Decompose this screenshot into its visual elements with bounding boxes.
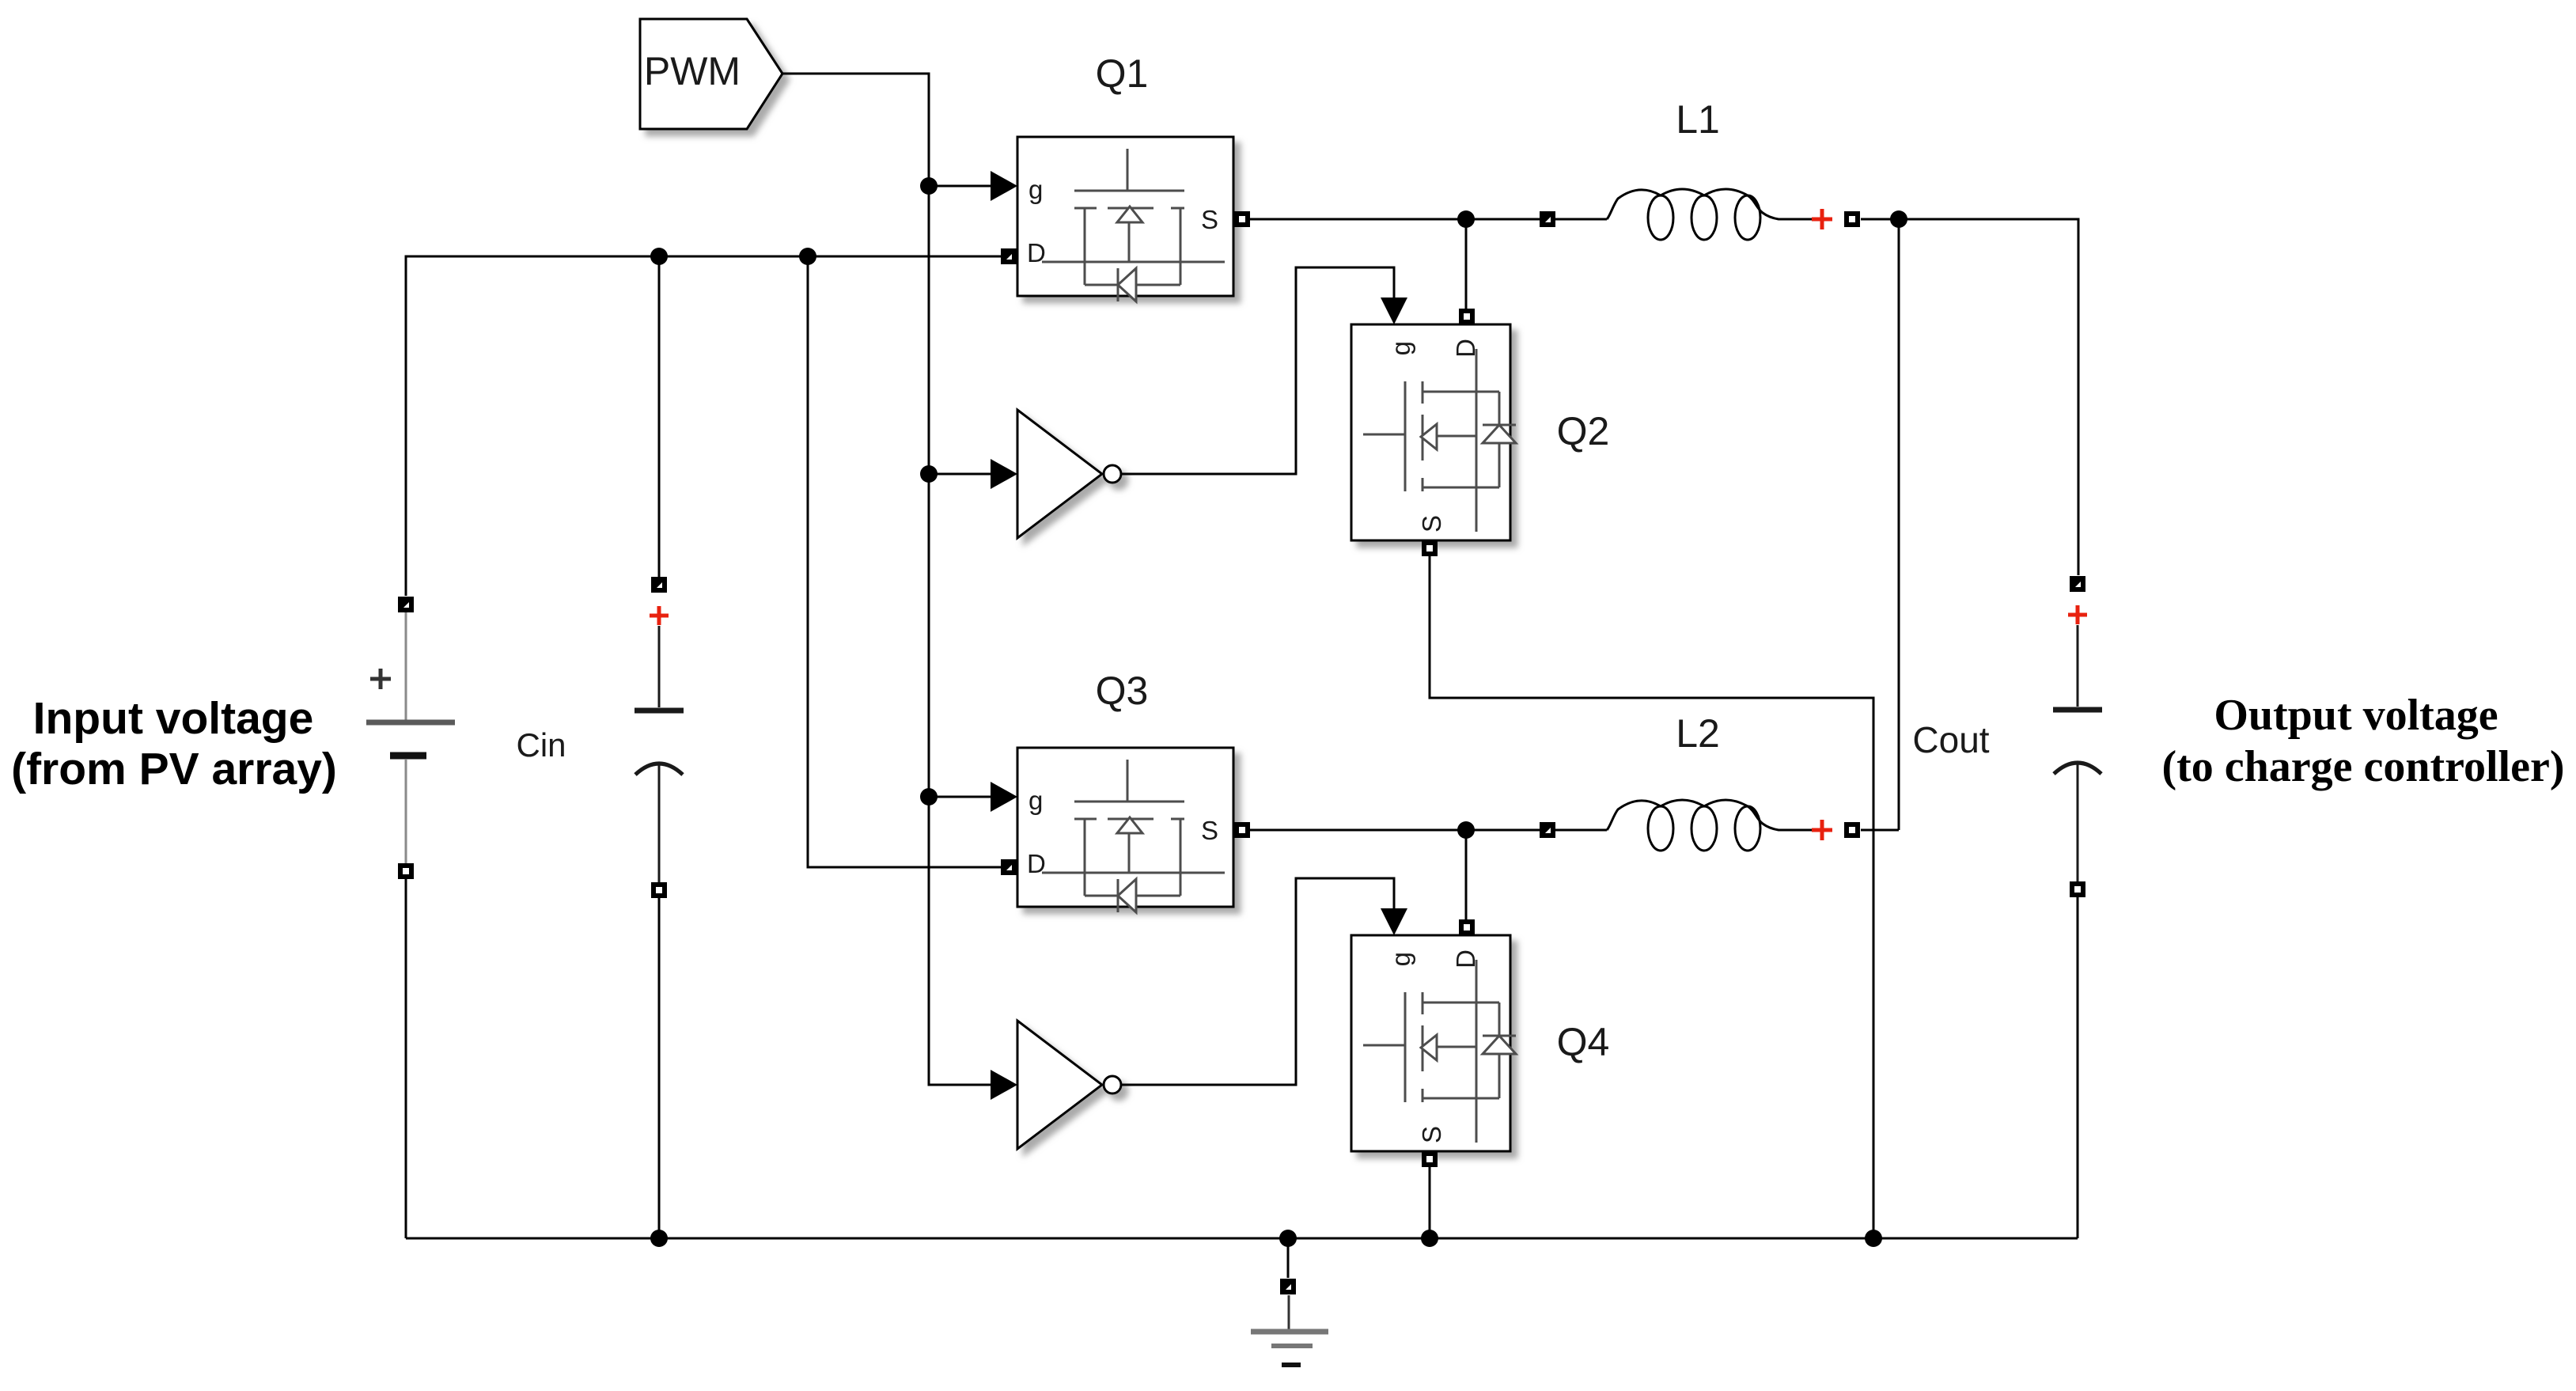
- wire Q4 source to ground rail: [1429, 1167, 1431, 1238]
- wire Vin bottom riser: [405, 879, 407, 1238]
- transistor Q1: [1001, 137, 1250, 301]
- svg-text:Q4: Q4: [1557, 1020, 1610, 1064]
- inverter NOT1: [1017, 410, 1121, 538]
- svg-text:L1: L1: [1676, 97, 1720, 142]
- svg-text:Cin: Cin: [516, 726, 566, 764]
- node ground: [1279, 1230, 1297, 1247]
- wire NOT1 to Q2 gate: [1121, 267, 1394, 474]
- wire L2 output: [1861, 829, 1899, 832]
- capacitor Cout: [2053, 576, 2102, 897]
- node Cin bottom: [650, 1230, 668, 1247]
- node Cin top: [650, 248, 668, 265]
- label Input voltage annotation: [11, 693, 337, 794]
- voltage source Vin: [366, 597, 455, 879]
- wire Cout bottom riser: [2077, 897, 2079, 1238]
- node Vout: [1890, 210, 1907, 228]
- inverter NOT2: [1017, 1021, 1121, 1149]
- node Q3 drain branch: [799, 248, 816, 265]
- svg-text:Q2: Q2: [1557, 409, 1610, 453]
- node SW2: [1457, 821, 1475, 839]
- arrowhead NOT2 in: [991, 1070, 1017, 1100]
- wire L1 to output node: [1861, 219, 2078, 575]
- wire Q3 source to L2: [1250, 829, 1540, 832]
- svg-text:(from PV array): (from PV array): [11, 744, 337, 794]
- wire PWM to Q3 gate: [929, 796, 992, 798]
- ground: [1251, 1238, 1328, 1365]
- node PWM-NOT1: [920, 465, 938, 483]
- node PWM-Q3g: [920, 788, 938, 805]
- arrowhead Q1 g: [991, 171, 1017, 201]
- wire PWM to NOT1: [929, 473, 992, 476]
- node SW1: [1457, 210, 1475, 228]
- node PWM-Q1g: [920, 177, 938, 195]
- wire NOT2 to Q4 gate: [1121, 878, 1394, 1085]
- arrowhead Q2 g: [1381, 298, 1407, 324]
- node Q2 source: [1865, 1230, 1882, 1247]
- wire SW1 to Q2 drain: [1465, 219, 1468, 309]
- svg-text:Q3: Q3: [1096, 669, 1149, 713]
- arrowhead Q4 g: [1381, 908, 1407, 935]
- label Output voltage annotation: [2162, 691, 2565, 791]
- arrowhead Q3 g: [991, 782, 1017, 812]
- wire ground rail: [406, 1237, 2078, 1240]
- transistor Q3: [1001, 748, 1250, 912]
- wire Vout to L2 output: [1898, 219, 1900, 830]
- svg-text:L2: L2: [1676, 711, 1720, 756]
- node Q4 source: [1421, 1230, 1438, 1247]
- transistor Q2: [1351, 309, 1516, 556]
- capacitor Cin: [635, 577, 684, 898]
- svg-text:PWM: PWM: [644, 49, 741, 93]
- transistor Q4: [1351, 919, 1516, 1167]
- svg-text:Output voltage: Output voltage: [2214, 691, 2498, 740]
- wire top rail to Q3 drain: [808, 256, 1002, 867]
- svg-text:Q1: Q1: [1096, 51, 1149, 96]
- wire PWM to Q1 gate: [929, 185, 992, 188]
- PWM goto tag: [640, 19, 782, 129]
- wire Q2 source to ground rail: [1430, 556, 1873, 1238]
- svg-text:Input voltage: Input voltage: [33, 693, 314, 744]
- wire Vin+ top rail: [406, 256, 1002, 596]
- wire Cin top riser: [658, 256, 661, 577]
- wire PWM bus: [782, 74, 992, 1085]
- inductor L1: [1540, 189, 1860, 240]
- arrowhead NOT1 in: [991, 459, 1017, 489]
- svg-text:Cout: Cout: [1912, 719, 1989, 760]
- wire Cin bottom riser: [658, 898, 661, 1238]
- svg-text:(to charge controller): (to charge controller): [2162, 742, 2565, 791]
- wire SW2 to Q4 drain: [1465, 830, 1468, 919]
- inductor L2: [1540, 800, 1860, 851]
- wire Q1 source to L1: [1250, 218, 1540, 221]
